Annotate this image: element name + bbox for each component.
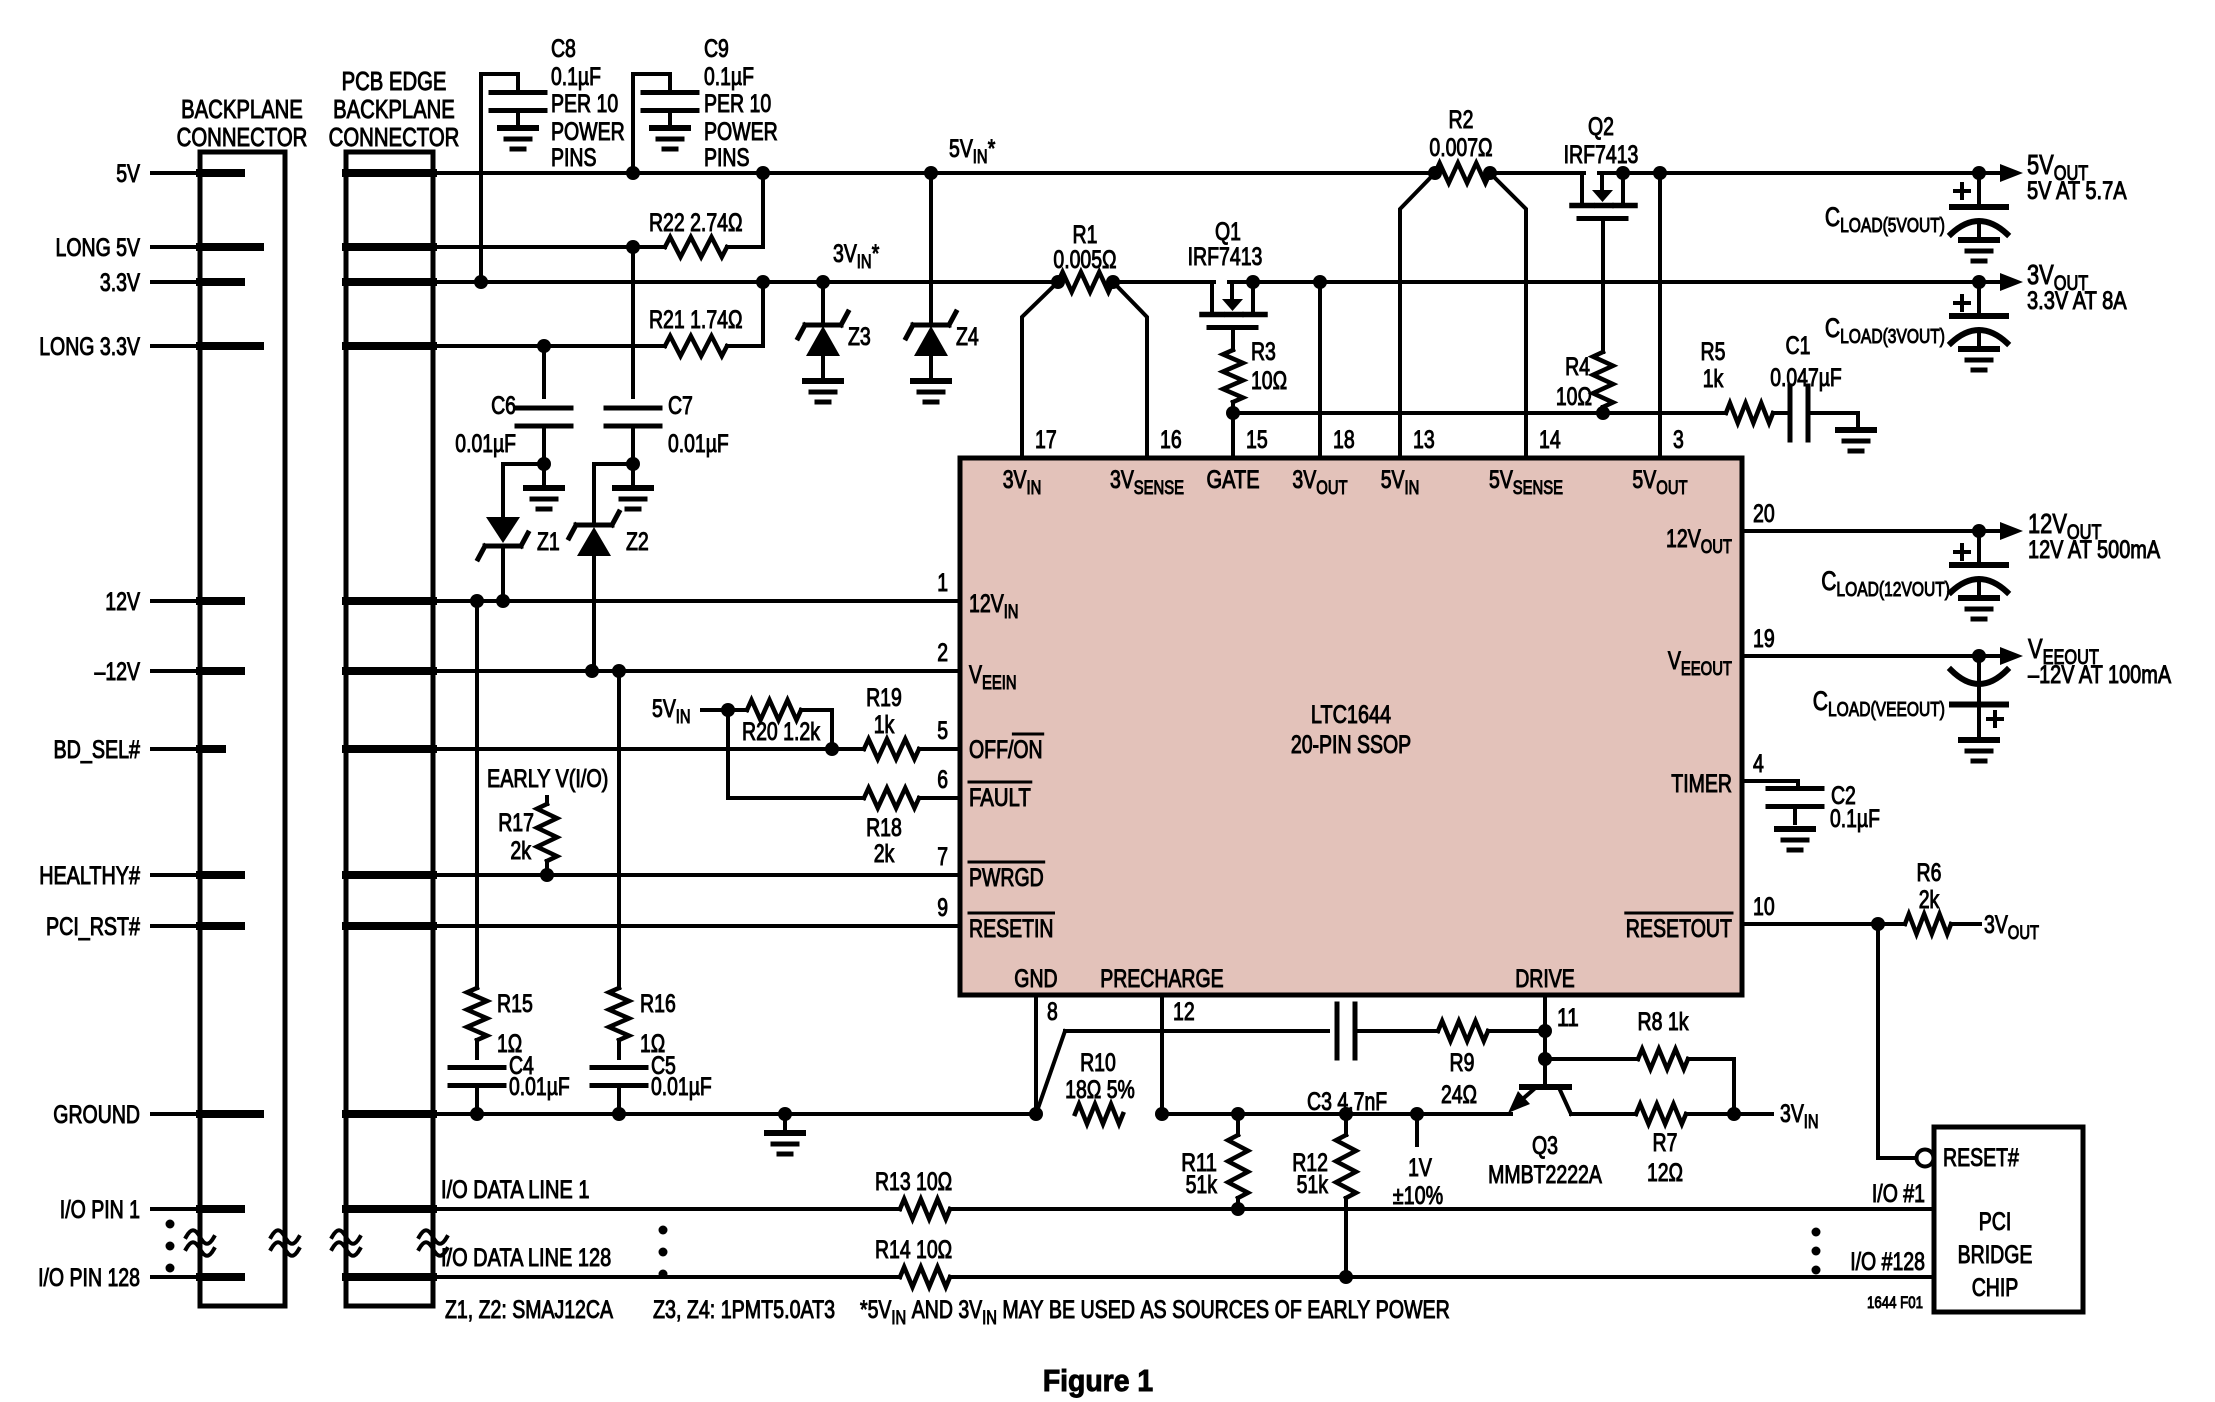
label RESET# — [1943, 1144, 2019, 1172]
capacitor C3 — [1065, 1004, 1438, 1058]
capacitor C8 — [481, 74, 545, 282]
dot C6 gnd node — [537, 457, 551, 471]
pin name 12VOUT — [1666, 525, 1732, 558]
svg-text:11: 11 — [1557, 1004, 1579, 1032]
svg-text:12V: 12V — [1666, 525, 1701, 553]
label R4 — [1556, 353, 1592, 411]
arrow 5VOUT — [2000, 164, 2023, 182]
wire FAULT — [728, 710, 864, 798]
svg-text:0.1µF: 0.1µF — [704, 63, 754, 91]
svg-text:0.1µF: 0.1µF — [1830, 805, 1880, 833]
svg-text:12V AT 500mA: 12V AT 500mA — [2028, 536, 2160, 564]
label R13 — [875, 1168, 952, 1196]
pin name PRECHARGE — [1100, 965, 1224, 993]
svg-text:12Ω: 12Ω — [1647, 1159, 1683, 1187]
label C4 — [509, 1052, 570, 1101]
break marks connector columns — [186, 1230, 447, 1256]
svg-text:1k: 1k — [874, 711, 895, 739]
wire PRECHARGE row — [1162, 1112, 1511, 1116]
resistor R3 — [1223, 350, 1243, 458]
svg-text:1644 F01: 1644 F01 — [1867, 1293, 1923, 1312]
label 3VOUT(R6) — [1984, 911, 2039, 944]
label R1 — [1053, 221, 1116, 274]
resistor R13 — [900, 1199, 950, 1219]
dots Z2 -12V — [585, 664, 626, 678]
svg-text:*: * — [988, 135, 996, 163]
svg-text:4: 4 — [1753, 750, 1764, 778]
svg-text:I/O DATA LINE 128: I/O DATA LINE 128 — [441, 1244, 611, 1272]
svg-text:FAULT: FAULT — [969, 784, 1031, 812]
pin name RESETIN — [969, 913, 1054, 943]
wire -12V row — [433, 669, 960, 673]
pin name TIMER — [1671, 770, 1732, 798]
pin number 14 — [1539, 426, 1561, 454]
svg-text:9: 9 — [937, 894, 948, 922]
svg-text:12V: 12V — [105, 588, 140, 616]
node 1V stub — [1410, 1107, 1424, 1145]
arrow 3VOUT — [2000, 273, 2023, 291]
svg-text:I/O #1: I/O #1 — [1872, 1180, 1925, 1208]
svg-text:SENSE: SENSE — [1513, 478, 1563, 499]
wire pin3 — [1658, 173, 1662, 458]
node dots 5V rail — [626, 166, 1986, 180]
pin name PWRGD — [969, 862, 1044, 892]
pin number 6 — [937, 766, 948, 794]
node LONG 3.3V label + stub — [39, 333, 200, 361]
svg-text:±10%: ±10% — [1393, 1182, 1443, 1210]
svg-text:POWER: POWER — [704, 118, 778, 146]
label I/O #1 — [1872, 1180, 1925, 1208]
svg-text:IRF7413: IRF7413 — [1564, 141, 1639, 169]
svg-text:LOAD(VEEOUT): LOAD(VEEOUT) — [1828, 699, 1945, 721]
pin name 5VIN — [1381, 466, 1420, 499]
svg-text:BD_SEL#: BD_SEL# — [54, 736, 141, 764]
label R12 — [1292, 1149, 1328, 1199]
pcb edge pin LONG 5V — [346, 243, 433, 251]
label R14 — [875, 1236, 952, 1264]
svg-text:LONG 3.3V: LONG 3.3V — [39, 333, 140, 361]
dot R4 bottom — [1596, 406, 1610, 420]
capacitor C1 — [1773, 386, 1858, 440]
svg-text:CONNECTOR: CONNECTOR — [177, 122, 308, 152]
pin name DRIVE — [1515, 965, 1575, 993]
backplane pin 5V — [200, 169, 241, 177]
svg-text:C6: C6 — [491, 392, 516, 420]
resistor R22 — [665, 237, 727, 257]
svg-text:12V: 12V — [2028, 508, 2067, 539]
label C7 — [668, 392, 729, 458]
pcb edge pin 5V — [346, 169, 433, 177]
wire I/O data line 1 — [433, 1207, 1934, 1211]
svg-text:7: 7 — [937, 843, 948, 871]
label I/O DATA LINE 1 — [441, 1176, 590, 1204]
svg-text:5V: 5V — [949, 135, 973, 163]
wire RESET# link — [1878, 924, 1916, 1158]
label I/O DATA LINE 128 — [441, 1244, 611, 1272]
svg-text:14: 14 — [1539, 426, 1561, 454]
label 3VIN(R7) — [1780, 1100, 1819, 1133]
wire pin11 DRIVE — [1543, 995, 1547, 1086]
svg-text:OFF/: OFF/ — [969, 736, 1013, 764]
wire gate node — [1233, 411, 1726, 415]
dot R7/R8 node — [1727, 1107, 1741, 1121]
svg-text:0.047µF: 0.047µF — [1770, 364, 1842, 392]
pin name 12VIN — [969, 590, 1019, 623]
svg-text:3V: 3V — [1003, 466, 1027, 494]
svg-text:2k: 2k — [510, 837, 531, 865]
svg-text:5V: 5V — [1632, 466, 1656, 494]
wire pin8 GND — [1034, 995, 1038, 1114]
svg-text:HEALTHY#: HEALTHY# — [39, 862, 140, 890]
svg-text:0.01µF: 0.01µF — [651, 1073, 712, 1101]
capacitor C7 — [606, 247, 660, 464]
svg-text:16: 16 — [1160, 426, 1182, 454]
label PCI BRIDGE CHIP — [1958, 1208, 2033, 1302]
svg-text:R10: R10 — [1080, 1049, 1116, 1077]
backplane pin -12V — [200, 667, 241, 675]
svg-text:20: 20 — [1753, 500, 1775, 528]
zener Z4 — [906, 173, 956, 378]
IC U1 LTC1644 body — [960, 458, 1742, 995]
svg-text:POWER: POWER — [551, 118, 625, 146]
pin number 12 — [1173, 998, 1195, 1026]
label pcb edge backplane connector — [329, 66, 460, 152]
svg-text:IN: IN — [973, 147, 988, 168]
dot RESETOUT — [1871, 917, 1885, 931]
svg-text:GATE: GATE — [1207, 466, 1260, 494]
svg-text:V: V — [2028, 633, 2043, 664]
label CLOAD(12VOUT) — [1821, 566, 1950, 601]
svg-text:R7: R7 — [1653, 1129, 1678, 1157]
svg-text:5V: 5V — [2027, 149, 2054, 180]
svg-text:C: C — [1813, 686, 1828, 716]
resistor R17 — [537, 797, 557, 875]
PCI bridge chip box — [1934, 1127, 2083, 1312]
label C6 — [455, 392, 516, 458]
capacitor CLOAD(VEEOUT) — [1951, 656, 2007, 761]
label R20 — [742, 718, 820, 746]
pin name 3VIN — [1003, 466, 1042, 499]
backplane pin LONG 3.3V — [200, 342, 260, 350]
resistor R10 — [1075, 1104, 1123, 1124]
svg-text:20-PIN SSOP: 20-PIN SSOP — [1291, 731, 1411, 759]
dot R12 top — [1339, 1107, 1353, 1121]
svg-text:2k: 2k — [874, 840, 895, 868]
svg-text:DRIVE: DRIVE — [1515, 965, 1575, 993]
svg-text:R5: R5 — [1701, 338, 1726, 366]
svg-text:3.3V AT 8A: 3.3V AT 8A — [2027, 287, 2127, 315]
svg-text:R18: R18 — [866, 814, 902, 842]
label C5 — [651, 1052, 712, 1101]
svg-text:18: 18 — [1333, 426, 1355, 454]
svg-text:LOAD(3VOUT): LOAD(3VOUT) — [1840, 326, 1945, 348]
label Z4 — [956, 323, 979, 351]
node LONG 5V label + stub — [56, 234, 201, 262]
svg-text:C: C — [1825, 202, 1840, 232]
dot R11 bottom — [1231, 1202, 1245, 1216]
label R9 — [1441, 1049, 1477, 1109]
label R5 — [1701, 338, 1726, 393]
svg-text:19: 19 — [1753, 625, 1775, 653]
resistor R15 — [467, 601, 487, 1040]
svg-text:10: 10 — [1753, 893, 1775, 921]
svg-text:PINS: PINS — [551, 144, 597, 172]
wire HEALTHY row — [433, 873, 960, 877]
svg-text:IRF7413: IRF7413 — [1188, 243, 1263, 271]
svg-text:PER 10: PER 10 — [551, 90, 618, 118]
svg-text:R20 1.2k: R20 1.2k — [742, 718, 820, 746]
label 5VOUT — [2027, 149, 2127, 205]
pin number 16 — [1160, 426, 1182, 454]
svg-text:MAY BE USED AS SOURCES OF EARL: MAY BE USED AS SOURCES OF EARLY POWER — [997, 1296, 1450, 1324]
label C9 — [704, 35, 778, 172]
dot R8 node — [1538, 1052, 1552, 1066]
wire PCI_RST row — [433, 924, 960, 928]
wire 5VIN stub — [702, 708, 728, 712]
svg-text:R4: R4 — [1565, 353, 1590, 381]
svg-text:C9: C9 — [704, 35, 729, 63]
svg-text:IN: IN — [1004, 602, 1019, 623]
capacitor CLOAD(3VOUT) — [1951, 282, 2007, 370]
label R18 — [866, 814, 902, 868]
svg-text:PINS: PINS — [704, 144, 750, 172]
svg-text:GROUND: GROUND — [53, 1101, 140, 1129]
svg-text:5V: 5V — [116, 160, 140, 188]
pin number 20 — [1753, 500, 1775, 528]
svg-text:0.007Ω: 0.007Ω — [1429, 134, 1492, 162]
svg-text:GND: GND — [1014, 965, 1057, 993]
pcb edge pin BD_SEL# — [346, 745, 433, 753]
svg-text:Figure 1: Figure 1 — [1043, 1363, 1153, 1398]
svg-text:3: 3 — [1673, 426, 1684, 454]
label I/O #128 — [1850, 1248, 1925, 1276]
node dots 3.3V rail — [474, 275, 1986, 289]
svg-text:0.01µF: 0.01µF — [668, 430, 729, 458]
svg-text:51k: 51k — [1297, 1171, 1329, 1199]
pin name VEEOUT — [1668, 647, 1732, 680]
svg-text:5V: 5V — [1381, 466, 1405, 494]
pin name 3VSENSE — [1110, 466, 1184, 499]
resistor R21 — [665, 336, 727, 356]
svg-text:I/O PIN 128: I/O PIN 128 — [38, 1264, 140, 1292]
svg-text:C8: C8 — [551, 35, 576, 63]
svg-text:R21 1.74Ω: R21 1.74Ω — [649, 306, 743, 334]
svg-text:13: 13 — [1413, 426, 1435, 454]
svg-text:1k: 1k — [1703, 365, 1724, 393]
svg-text:*: * — [872, 240, 880, 268]
label 3VOUT — [2027, 259, 2127, 315]
capacitor C9 — [633, 74, 697, 173]
dots Z1 12V — [470, 594, 510, 608]
svg-text:R1: R1 — [1073, 221, 1098, 249]
svg-text:2: 2 — [937, 639, 948, 667]
transistor Q1 — [1202, 282, 1265, 350]
svg-text:12V: 12V — [969, 590, 1004, 618]
pcb edge pin LONG 3.3V — [346, 342, 433, 350]
svg-text:3V: 3V — [1292, 466, 1316, 494]
node BD_SEL# label + stub — [54, 736, 201, 764]
pin number 5 — [937, 717, 948, 745]
label R17 — [498, 809, 534, 865]
backplane pin I/O PIN 1 — [200, 1205, 241, 1213]
label C2 — [1830, 782, 1880, 833]
svg-text:IN: IN — [1027, 478, 1042, 499]
pin number 15 — [1246, 426, 1268, 454]
svg-text:RESETIN: RESETIN — [969, 915, 1054, 943]
pin number 7 — [937, 843, 948, 871]
label 5VIN* — [949, 135, 996, 168]
resistor R19 — [832, 739, 960, 759]
svg-text:3.3V: 3.3V — [100, 269, 140, 297]
dot R17 bottom — [540, 868, 554, 882]
pin number 3 — [1673, 426, 1684, 454]
svg-text:3V: 3V — [1984, 911, 2008, 939]
svg-text:R19: R19 — [866, 684, 902, 712]
svg-text:R17: R17 — [498, 809, 534, 837]
svg-text:R14 10Ω: R14 10Ω — [875, 1236, 952, 1264]
svg-text:I/O PIN 1: I/O PIN 1 — [60, 1196, 140, 1224]
svg-text:Z4: Z4 — [956, 323, 979, 351]
zener Z2 — [569, 464, 633, 671]
svg-text:6: 6 — [937, 766, 948, 794]
svg-text:R9: R9 — [1450, 1049, 1475, 1077]
dot R19 node — [825, 742, 839, 756]
label EARLY V(I/O) — [487, 765, 608, 793]
resistor R1 — [1058, 272, 1113, 292]
svg-text:I/O #128: I/O #128 — [1850, 1248, 1925, 1276]
backplane pin 12V — [200, 597, 241, 605]
svg-text:0.01µF: 0.01µF — [509, 1073, 570, 1101]
svg-text:Z1, Z2: SMAJ12CA: Z1, Z2: SMAJ12CA — [445, 1296, 613, 1324]
svg-text:CHIP: CHIP — [1972, 1274, 2019, 1302]
pin number 11 — [1557, 1004, 1579, 1032]
IC name — [1291, 701, 1411, 759]
svg-text:Z2: Z2 — [626, 528, 649, 556]
svg-text:R15: R15 — [497, 990, 533, 1018]
resistor R18 — [864, 788, 960, 808]
svg-text:ON: ON — [1013, 736, 1042, 764]
resistor R5 — [1726, 403, 1773, 423]
svg-text:RESETOUT: RESETOUT — [1626, 915, 1732, 943]
wire pin17 — [1022, 282, 1058, 458]
wire 3.3V rail — [433, 280, 2001, 284]
wire I/O data line 128 — [433, 1275, 1934, 1279]
svg-text:BACKPLANE: BACKPLANE — [333, 94, 455, 124]
zener Z1 — [478, 464, 544, 601]
capacitor C5 — [592, 1040, 646, 1114]
svg-text:3V: 3V — [2027, 259, 2054, 290]
wire pin12 PRECHARGE — [1160, 995, 1164, 1114]
backplane pin GROUND — [200, 1110, 260, 1118]
label R3 — [1251, 338, 1287, 395]
svg-text:0.1µF: 0.1µF — [551, 63, 601, 91]
label CLOAD(VEEOUT) — [1813, 686, 1945, 721]
svg-text:3V: 3V — [833, 240, 857, 268]
label VEEOUT — [2028, 633, 2171, 689]
label 1644 F01 — [1867, 1293, 1923, 1312]
svg-text:I/O DATA LINE 1: I/O DATA LINE 1 — [441, 1176, 590, 1204]
pin name 5VOUT(top) — [1632, 466, 1688, 499]
dot 12VOUT — [1972, 524, 1986, 538]
svg-text:8: 8 — [1047, 998, 1058, 1026]
pin name GATE — [1207, 466, 1260, 494]
ground C6 — [526, 464, 562, 509]
capacitor CLOAD(5VOUT) — [1951, 173, 2007, 261]
label CLOAD(3VOUT) — [1825, 313, 1945, 348]
backplane pin 3.3V — [200, 278, 241, 286]
svg-text:IN: IN — [676, 707, 691, 728]
capacitor C2 — [1768, 789, 1822, 824]
backplane pin HEALTHY# — [200, 871, 241, 879]
dot R3 gate node — [1226, 406, 1240, 420]
ellipsis dots left — [166, 1220, 175, 1273]
svg-text:RESET#: RESET# — [1943, 1144, 2019, 1172]
pin name 3VOUT(top) — [1292, 466, 1348, 499]
dots GROUND row — [470, 1107, 792, 1121]
label R7 — [1647, 1129, 1683, 1187]
label Z1 — [537, 528, 560, 556]
svg-text:5V: 5V — [1489, 466, 1513, 494]
pin number 19 — [1753, 625, 1775, 653]
resistor R2 — [1435, 163, 1490, 183]
pcb edge pin HEALTHY# — [346, 871, 433, 879]
label Q3 — [1488, 1132, 1602, 1189]
wire 12V row — [433, 599, 960, 603]
svg-text:IN: IN — [1405, 478, 1420, 499]
svg-text:R2: R2 — [1449, 106, 1474, 134]
label R6 — [1917, 859, 1942, 914]
label R22 — [649, 209, 743, 237]
pcb edge pin 3.3V — [346, 278, 433, 286]
label R11 — [1181, 1149, 1217, 1199]
label R10 — [1065, 1049, 1135, 1104]
dot R20 left — [721, 703, 735, 717]
svg-text:Q2: Q2 — [1588, 113, 1614, 141]
pin number 17 — [1035, 426, 1057, 454]
label 5VIN(R20) — [652, 695, 691, 728]
dot R9 node — [1538, 1024, 1552, 1038]
dot R12 bottom — [1339, 1270, 1353, 1284]
pin number 10 — [1753, 893, 1775, 921]
wire pin13 — [1400, 173, 1435, 458]
ellipsis dots right — [1812, 1228, 1821, 1275]
label C8 — [551, 35, 625, 172]
svg-text:R6: R6 — [1917, 859, 1942, 887]
resistor R11 — [1228, 1114, 1248, 1209]
svg-text:R8 1k: R8 1k — [1638, 1008, 1689, 1036]
svg-text:R3: R3 — [1251, 338, 1276, 366]
svg-text:EARLY V(I/O): EARLY V(I/O) — [487, 765, 608, 793]
svg-text:EEOUT: EEOUT — [1681, 659, 1732, 680]
svg-text:LOAD(5VOUT): LOAD(5VOUT) — [1840, 215, 1945, 237]
wire BD_SEL row — [433, 747, 832, 751]
svg-text:TIMER: TIMER — [1671, 770, 1732, 798]
label R21 — [649, 306, 743, 334]
svg-text:OUT: OUT — [2008, 923, 2040, 944]
svg-text:5: 5 — [937, 717, 948, 745]
note Z1 Z2 — [445, 1296, 613, 1324]
pin name OFF/ON — [969, 734, 1043, 764]
svg-text:5V: 5V — [652, 695, 676, 723]
label R8 — [1638, 1008, 1689, 1036]
node 12V label + stub — [105, 588, 200, 616]
svg-text:3V: 3V — [1110, 466, 1134, 494]
backplane pin BD_SEL# — [200, 745, 222, 753]
svg-text:10Ω: 10Ω — [1556, 383, 1592, 411]
svg-text:V: V — [1668, 647, 1681, 675]
svg-text:C: C — [1825, 313, 1840, 343]
svg-text:EEIN: EEIN — [982, 673, 1017, 694]
